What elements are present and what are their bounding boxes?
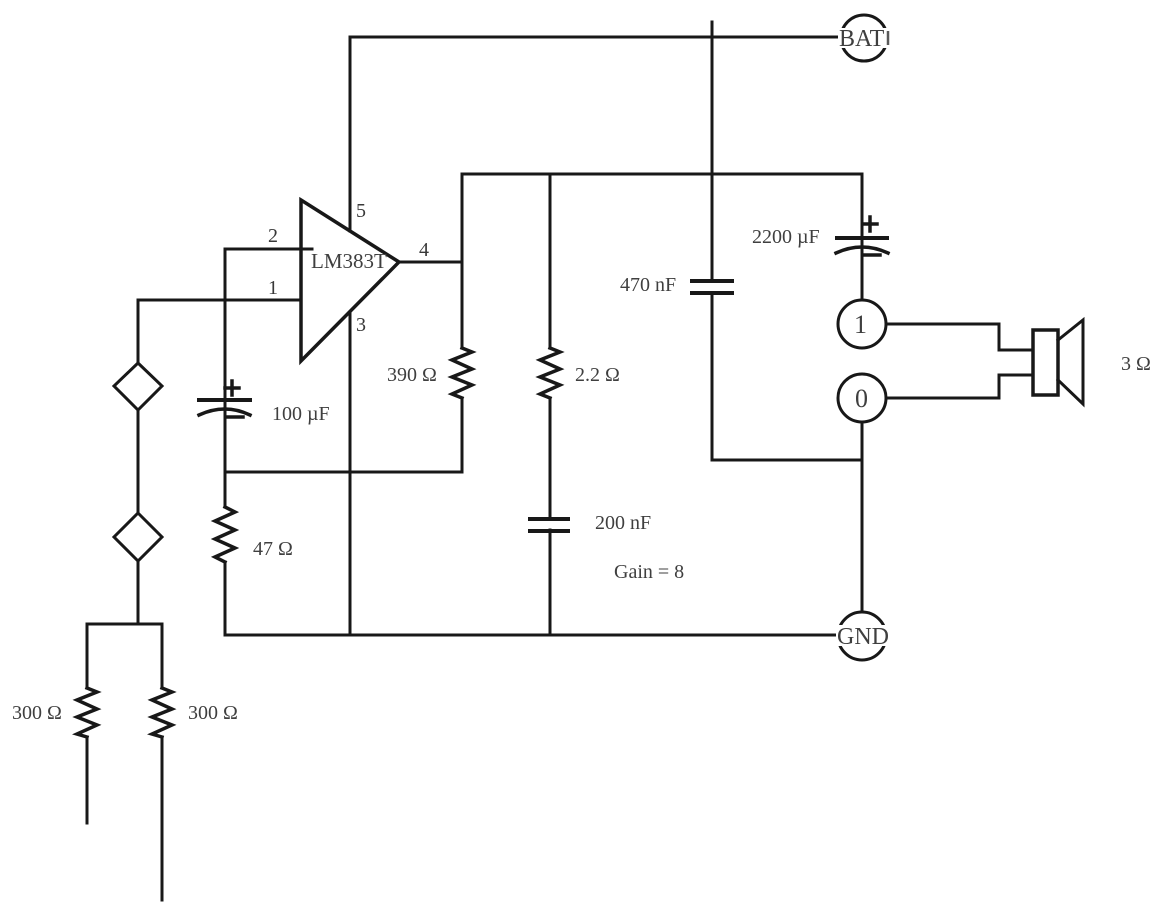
speaker 3 ohm body (1033, 330, 1058, 395)
wire pin 4 output (399, 261, 462, 264)
svg-text:3: 3 (356, 314, 366, 336)
svg-text:300 Ω: 300 Ω (188, 702, 238, 724)
wire left 300 ohm lead (86, 737, 89, 823)
wire 470nF bottom to rail (712, 293, 862, 460)
wire diamond 2 to tee (137, 561, 140, 624)
svg-text:GND: GND (837, 624, 889, 650)
capacitor 100uF plate (199, 398, 250, 402)
diamond connector upper (114, 363, 162, 410)
wire between diamonds (137, 410, 140, 513)
wire pin 2 stub (225, 249, 312, 507)
wire terminal 1 to speaker (886, 324, 1033, 350)
wire 390 ohm branch lower (225, 398, 462, 472)
capacitor 2200uF minus mark (864, 253, 880, 257)
capacitor 100uF curved plate (199, 409, 250, 415)
capacitor 100uF minus mark (227, 415, 243, 419)
svg-text:LM383T: LM383T (311, 249, 387, 273)
wire top rail from pin 5 to BAT (350, 37, 838, 231)
wire 390 ohm branch upper (461, 262, 464, 348)
capacitor 2200uF plus mark (863, 217, 877, 231)
capacitor 470nF plates (692, 281, 732, 293)
svg-text:3 Ω: 3 Ω (1121, 353, 1151, 375)
wire pin 3 vertical (349, 312, 352, 635)
terminal BAT clipped letter (887, 31, 890, 45)
wire ground rail y=635 (225, 634, 837, 637)
svg-text:2200 µF: 2200 µF (752, 226, 820, 248)
terminal GND circle (838, 612, 886, 660)
svg-text:47 Ω: 47 Ω (253, 538, 293, 560)
svg-text:BAT: BAT (839, 26, 885, 52)
wire 47 ohm to ground rail (224, 562, 227, 635)
resistor 300 ohm left (77, 688, 97, 737)
capacitor 2200uF curved plate (836, 247, 888, 253)
resistor 300 ohm right (152, 688, 172, 737)
wire 200nF to ground rail (549, 530, 552, 635)
svg-text:100 µF: 100 µF (272, 403, 330, 425)
capacitor 200nF plates (530, 519, 568, 531)
diamond connector lower (114, 513, 162, 561)
svg-text:300 Ω: 300 Ω (12, 702, 62, 724)
svg-text:1: 1 (268, 277, 278, 299)
svg-text:200 nF: 200 nF (595, 512, 651, 534)
svg-text:Gain = 8: Gain = 8 (614, 561, 684, 583)
wire output rail y=174 (462, 174, 862, 300)
resistor 47 ohm (215, 507, 235, 562)
svg-text:2.2 Ω: 2.2 Ω (575, 364, 620, 386)
svg-text:5: 5 (356, 200, 366, 222)
terminal 1 circle (838, 300, 886, 348)
resistor 390 ohm (452, 348, 472, 398)
terminal 0 circle (838, 374, 886, 422)
svg-text:1: 1 (854, 310, 867, 339)
capacitor 100uF plus mark (225, 381, 239, 395)
wire tee bar (87, 624, 162, 688)
svg-text:4: 4 (419, 239, 429, 261)
svg-text:0: 0 (855, 384, 868, 413)
capacitor 2200uF plate (837, 236, 887, 240)
op-amp U1 LM383T triangle (301, 200, 399, 361)
wire 2.2 ohm branch upper (549, 174, 552, 348)
wire terminal 0 to speaker (886, 375, 1033, 398)
svg-text:470 nF: 470 nF (620, 274, 676, 296)
wire right 300 ohm lead (161, 737, 164, 900)
terminal GND label mask (836, 625, 890, 646)
terminal BAT circle (841, 15, 887, 61)
speaker 3 ohm horn (1058, 320, 1083, 404)
wire 2.2 ohm to 200nF (549, 398, 552, 517)
terminal BAT label mask (838, 28, 891, 48)
wire vertical battery branch x=712 (711, 22, 714, 281)
resistor 2.2 ohm (540, 348, 560, 398)
wire terminal 0 to GND (861, 422, 864, 612)
svg-text:390 Ω: 390 Ω (387, 364, 437, 386)
wire pin 1 stub (138, 300, 301, 363)
svg-text:2: 2 (268, 225, 278, 247)
